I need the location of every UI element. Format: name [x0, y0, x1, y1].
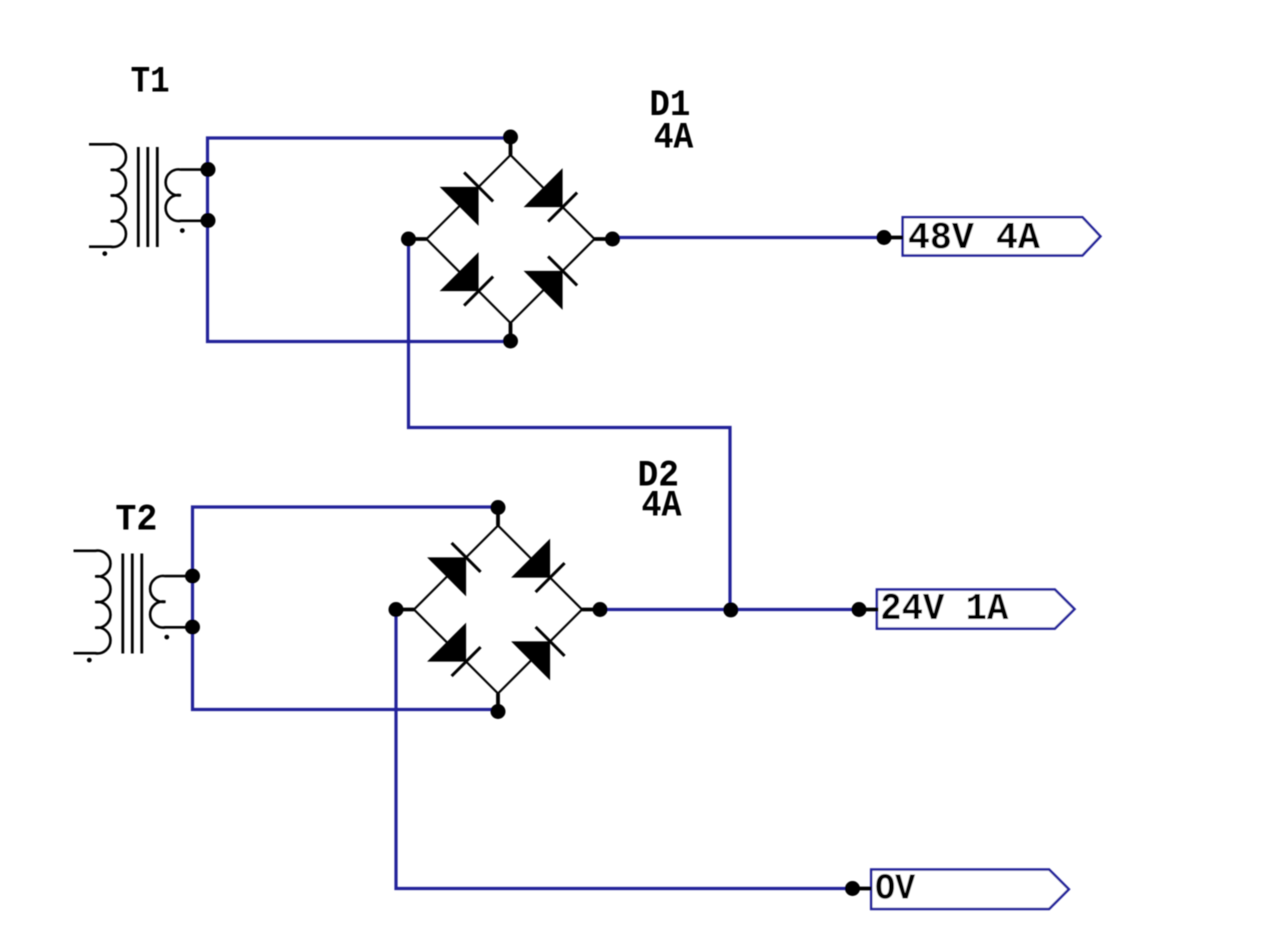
svg-text:4A: 4A — [642, 486, 683, 528]
svg-text:OV: OV — [875, 869, 915, 910]
svg-text:24V 1A: 24V 1A — [880, 588, 1008, 631]
svg-text:48V 4A: 48V 4A — [908, 217, 1040, 260]
svg-text:T2: T2 — [115, 500, 157, 542]
svg-text:4A: 4A — [654, 118, 694, 160]
svg-text:T1: T1 — [131, 62, 170, 104]
